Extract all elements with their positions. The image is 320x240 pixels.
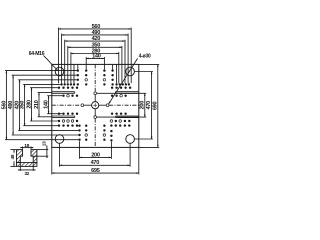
right extension lines [97,92,147,94]
M16 dense row top-left [60,83,62,85]
dimension 140 left [48,96,50,114]
detail dimension 32 [19,163,21,171]
detail dimension 48 [13,150,15,153]
horizontal center line [52,104,81,106]
svg-text:560: 560 [2,101,8,110]
dimension 350 left [24,84,26,125]
connector lines center cross [82,104,91,106]
T-slot upper left segment [52,91,74,93]
hole o30 east [106,104,109,107]
tie-bar hole top-left [55,67,64,76]
dimension 560 left [5,71,7,140]
svg-text:350: 350 [92,42,101,48]
hatched material right [31,150,37,163]
M16 dense row top-right [115,83,117,85]
svg-text:140: 140 [44,100,50,109]
dimension 470 bottom [60,164,131,166]
M16 side cluster rows lower-left [58,113,60,115]
hole o30 north [94,92,97,95]
dimension 200 bottom [80,156,112,158]
dimension 350 top [68,46,122,48]
tie-bar hole bottom-right [126,135,135,144]
hole o30 west [81,104,84,107]
hole o30 south [94,116,97,119]
left dimension extension lines [5,70,77,72]
detail dimension 13 [37,149,48,151]
svg-text:13: 13 [42,141,48,146]
dimension 420 left [19,80,21,131]
M16 hole cluster bottom columns [78,125,80,127]
svg-text:280: 280 [27,100,33,109]
svg-text:470: 470 [91,160,100,166]
svg-text:210: 210 [34,100,40,109]
dimension 490 top [62,34,129,36]
T-slot lower right segment [116,115,139,117]
M16 side cluster rows lower-right [111,113,113,115]
dimension 695 bottom [52,172,139,174]
M16 hole cluster top-left columns [77,69,79,71]
svg-text:490: 490 [8,101,14,110]
central locating hole [92,102,99,109]
svg-text:200: 200 [91,152,100,158]
dimension 490 left [12,75,14,135]
dimension 690 right [157,64,159,147]
svg-text:420: 420 [92,36,101,42]
dimension 200 right [144,93,146,117]
T-slot lower left segment [52,115,74,117]
svg-text:350: 350 [20,101,26,110]
hatched material left [17,150,23,163]
svg-text:200: 200 [139,101,145,110]
svg-text:48: 48 [10,154,16,159]
extension line corner column right [116,64,118,83]
top dimension extension lines left [58,28,60,84]
dimension 280 left [31,88,33,121]
M16 side cluster rows upper-right [111,87,113,89]
dimension 140 top [86,57,104,59]
dimension 210 left [38,93,40,117]
svg-text:4-ø30: 4-ø30 [139,53,151,59]
svg-text:695: 695 [91,168,100,174]
svg-text:140: 140 [92,53,101,59]
detail dimension 18 [22,146,24,149]
M16 side cluster rows upper-left [58,87,60,89]
svg-text:690: 690 [152,101,158,110]
hatched material bottom [17,163,37,167]
extension line corner column left [73,64,75,83]
dimension 420 top [65,40,125,42]
tie-bar hole top-right [126,67,135,76]
svg-text:32: 32 [24,171,29,177]
T-slot upper right segment [116,91,139,93]
plate outline [52,64,139,147]
leader 4-o30 [109,58,138,104]
bottom extension lines [79,141,81,159]
dimension 470 right [151,72,153,140]
extension lines 140 top [85,57,87,69]
dimension 560 top [59,28,132,30]
svg-text:470: 470 [146,101,152,110]
svg-text:18: 18 [24,143,29,149]
dimension 280 top [71,53,119,55]
vertical center line [94,64,96,92]
tie-bar hole bottom-left [55,135,64,144]
M16 hole cluster top-right columns [103,69,105,71]
svg-text:490: 490 [92,30,101,36]
svg-text:64-M16: 64-M16 [29,51,45,57]
